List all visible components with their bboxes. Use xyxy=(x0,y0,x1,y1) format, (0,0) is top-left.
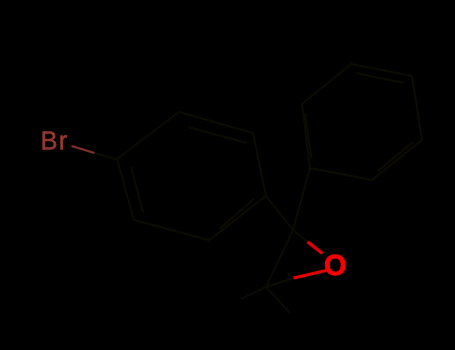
svg-text:Br: Br xyxy=(41,128,69,156)
bond ring2 P1 - C2 xyxy=(293,168,310,230)
CH2 hydrogen stub right xyxy=(266,287,290,313)
bond Br-ring olive half xyxy=(95,153,118,160)
ring2 inner double bond P1=P2 xyxy=(305,114,312,158)
ring2 inner double bond P5=P6 xyxy=(378,142,413,171)
ring1 inner double bond D=E xyxy=(219,199,254,229)
svg-text:O: O xyxy=(324,250,347,282)
ring1 inner double bond F=A xyxy=(131,167,143,212)
benzene ring 2 (phenyl) outline xyxy=(302,64,422,180)
bond Br-ring maroon half xyxy=(72,146,95,153)
epoxide CH2-O bond olive half xyxy=(266,278,294,287)
bond ring1 D - C2 xyxy=(266,196,293,230)
benzene ring 1 (bromophenyl) outline xyxy=(117,112,266,240)
epoxide CH2-O bond red half xyxy=(294,271,327,279)
epoxide C2-O bond red half xyxy=(308,242,323,254)
epoxide C2-CH2 bond xyxy=(266,230,293,287)
ring1 inner double bond B=C xyxy=(188,127,247,143)
ring2 inner double bond P3=P4 xyxy=(356,73,404,83)
epoxide C2-O bond olive half xyxy=(293,230,308,242)
CH2 hydrogen stub left xyxy=(241,287,266,299)
